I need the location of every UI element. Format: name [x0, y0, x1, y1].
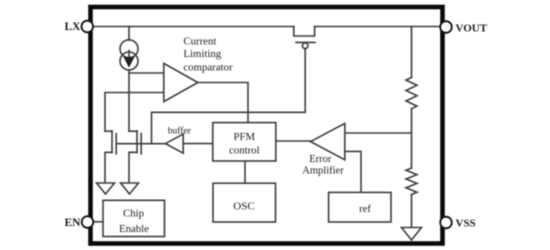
resistor R2 — [406, 168, 417, 228]
label PFM control — [229, 131, 260, 156]
svg-text:Enable: Enable — [119, 223, 149, 235]
transistor Q3 (sense NMOS) — [129, 131, 141, 183]
svg-text:VOUT: VOUT — [456, 22, 488, 34]
wire PFM to OSC — [244, 161, 246, 183]
resistor R1 — [406, 27, 417, 109]
svg-text:VSS: VSS — [456, 218, 476, 230]
OSC box — [213, 183, 276, 222]
svg-text:LX: LX — [65, 21, 82, 33]
svg-text:OSC: OSC — [233, 200, 254, 212]
pin LX — [82, 21, 94, 33]
wire LX to PMOS source — [92, 26, 294, 28]
PFM control box — [213, 123, 276, 161]
ground GND2 — [121, 183, 139, 194]
wire PFM to error amplifier — [276, 140, 311, 142]
label Error Amplifier — [302, 154, 344, 177]
transistor Q1 (PMOS pass device) — [294, 27, 315, 49]
wire comparator top input — [129, 72, 164, 74]
svg-text:Amplifier: Amplifier — [302, 166, 344, 177]
svg-text:EN: EN — [65, 217, 82, 229]
op-amp U2 buffer — [166, 134, 184, 153]
label Current Limiting comparator — [183, 35, 233, 73]
IC outline — [91, 7, 443, 244]
pin VSS — [440, 217, 452, 229]
transistor Q2 (main switch NMOS) — [105, 131, 116, 183]
label Chip Enable — [119, 208, 149, 235]
Chip Enable box — [103, 200, 165, 236]
wire buffer input from PFM — [183, 143, 213, 145]
svg-text:comparator: comparator — [183, 61, 233, 73]
wire Q1 gate to node G — [152, 49, 306, 144]
pin VOUT — [440, 21, 452, 33]
ground GND1 — [97, 183, 115, 194]
svg-text:buffer: buffer — [168, 126, 192, 137]
current source I1 — [120, 27, 138, 132]
wire gate bus to buffer output — [116, 143, 165, 145]
svg-text:Current: Current — [183, 35, 216, 47]
pin EN — [82, 216, 94, 228]
ref box — [329, 192, 391, 222]
wire ref to error amplifier — [345, 151, 361, 192]
wire EN pin to Chip Enable — [93, 221, 103, 223]
wire feedback node FB to error amplifier — [345, 132, 412, 134]
ground GND3 — [402, 228, 422, 241]
op-amp U3 error amplifier — [311, 123, 345, 159]
svg-text:control: control — [229, 145, 260, 157]
svg-text:Error: Error — [309, 154, 332, 165]
svg-text:Limiting: Limiting — [183, 48, 221, 60]
svg-text:ref: ref — [359, 204, 371, 215]
wire R1 to R2 — [411, 109, 413, 168]
svg-text:PFM: PFM — [233, 131, 255, 143]
svg-text:Chip: Chip — [123, 208, 144, 220]
wire comparator bottom input — [105, 93, 164, 132]
wire comparator output to PFM — [198, 83, 248, 123]
wire PMOS drain to VOUT — [315, 26, 441, 28]
op-amp U1 current limiting comparator — [164, 63, 198, 101]
